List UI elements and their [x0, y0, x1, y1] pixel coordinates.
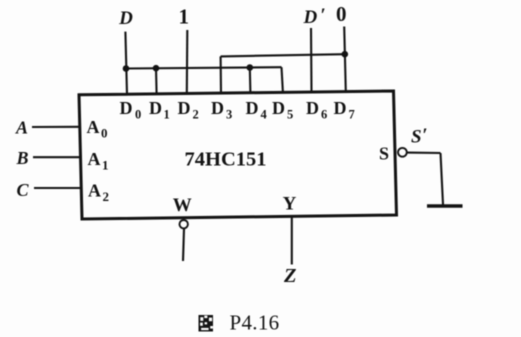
svg-text:D7: D7: [334, 98, 355, 122]
svg-text:D1: D1: [149, 98, 170, 122]
svg-text:D5: D5: [272, 98, 293, 122]
svg-text:S: S: [379, 144, 389, 164]
svg-text:S′: S′: [411, 125, 427, 148]
svg-text:D2: D2: [178, 98, 199, 122]
svg-text:74HC151: 74HC151: [185, 148, 267, 170]
svg-text:Z: Z: [283, 265, 297, 287]
svg-text:W: W: [173, 195, 192, 216]
svg-text:B: B: [15, 148, 28, 168]
svg-text:D3: D3: [211, 98, 232, 122]
svg-text:Y: Y: [283, 194, 297, 215]
svg-text:D4: D4: [246, 98, 268, 122]
svg-text:D6: D6: [306, 98, 327, 122]
svg-text:0: 0: [336, 2, 347, 26]
svg-text:A: A: [15, 118, 28, 138]
svg-text:D0: D0: [120, 98, 142, 122]
svg-text:A1: A1: [88, 149, 109, 173]
svg-text:1: 1: [178, 5, 189, 29]
svg-text:D′: D′: [303, 5, 326, 28]
svg-text:A0: A0: [87, 117, 108, 141]
svg-text:D: D: [118, 8, 133, 29]
svg-text:P4.16: P4.16: [230, 311, 280, 335]
svg-text:A2: A2: [88, 180, 109, 204]
svg-text:C: C: [16, 180, 29, 200]
